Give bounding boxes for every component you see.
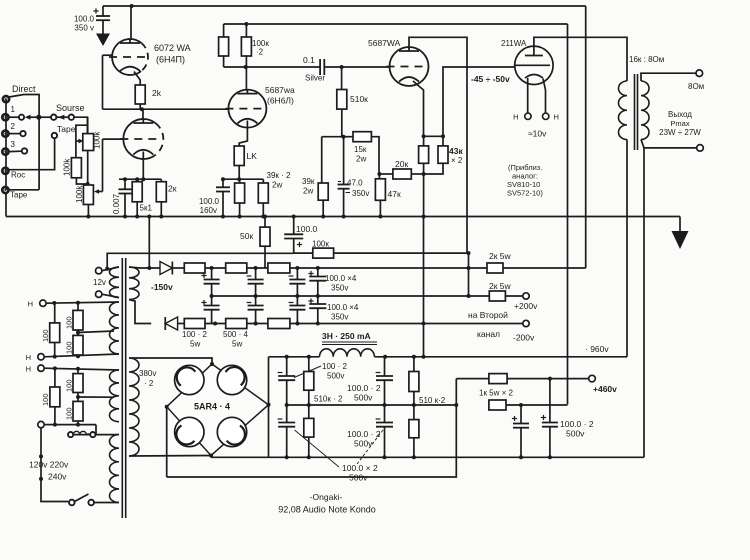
label LK xyxy=(247,151,258,161)
wire V1b plate xyxy=(142,109,144,119)
terminal +460v xyxy=(589,375,596,382)
svg-text:350 v: 350 v xyxy=(74,24,94,33)
wire 43k bottoms xyxy=(422,163,443,176)
resistor 50k xyxy=(260,215,270,269)
wire 12v tap to bias node xyxy=(105,253,294,270)
rectifier tube 5AR4 d xyxy=(217,417,246,446)
svg-text:-200v: -200v xyxy=(513,333,535,343)
label -960v xyxy=(585,344,609,354)
svg-text:350v: 350v xyxy=(331,313,348,322)
tube V2 5687WA xyxy=(225,90,266,128)
svg-text:· 2: · 2 xyxy=(144,379,154,388)
wire rail to row1 xyxy=(147,215,151,271)
wire HT top to bridge xyxy=(129,358,212,364)
resistor 100k plate A xyxy=(219,37,229,56)
resistor 100 g2b xyxy=(50,368,60,424)
wire H1 line xyxy=(46,301,119,305)
label 47k xyxy=(388,189,401,199)
wire T4 line xyxy=(44,423,96,427)
wire jack3 xyxy=(9,150,21,152)
svg-text:Выход: Выход xyxy=(668,110,692,119)
svg-text:0.007: 0.007 xyxy=(112,193,121,214)
svg-text:100 · 2: 100 · 2 xyxy=(182,330,207,339)
wire PSU mid rail xyxy=(285,403,459,407)
label Sourse xyxy=(56,103,85,113)
capacitor psu B mid xyxy=(376,357,393,405)
svg-text:100.0 · 2: 100.0 · 2 xyxy=(560,419,594,429)
choke 3H 250mA xyxy=(320,349,375,357)
label Direct xyxy=(12,84,36,94)
svg-text:5AR4 · 4: 5AR4 · 4 xyxy=(194,402,230,412)
terminal +200v xyxy=(523,293,529,299)
capacitor 100.0 bias xyxy=(284,215,303,254)
svg-text:100: 100 xyxy=(41,329,50,342)
wire pot bottom xyxy=(87,151,89,186)
wire H3 line xyxy=(44,366,119,370)
resistor row1 a xyxy=(184,263,205,273)
junction bridge left xyxy=(165,405,169,409)
junction bridge bottom xyxy=(209,454,213,458)
label 3 xyxy=(11,140,16,149)
svg-text:2w: 2w xyxy=(303,187,313,196)
label 100.0x2 500v bottom xyxy=(295,430,384,483)
label 0.007 xyxy=(112,193,121,214)
label 100k bias xyxy=(312,240,329,249)
label 1k 5w x2 xyxy=(479,389,514,398)
label 100 g1b xyxy=(65,316,74,329)
svg-text:160v: 160v xyxy=(200,206,217,215)
wire OPT sec bottom xyxy=(641,140,697,148)
terminal H left xyxy=(525,113,531,119)
wire mid to 2k5w B xyxy=(467,294,490,298)
wire g2 center tap xyxy=(76,395,114,399)
label H3 xyxy=(26,365,31,374)
svg-text:350v: 350v xyxy=(352,189,369,198)
svg-text:Silver: Silver xyxy=(305,74,325,83)
label Audio Note Kondo xyxy=(278,505,376,515)
contact circle sourse R xyxy=(69,115,74,120)
label 50k xyxy=(240,231,253,241)
svg-text:100.0 · 2: 100.0 · 2 xyxy=(347,429,381,439)
jack Direct xyxy=(3,96,9,102)
svg-text:·2: ·2 xyxy=(256,48,264,57)
terminal -200v xyxy=(523,320,529,326)
svg-text:100.0 · 2: 100.0 · 2 xyxy=(347,383,381,393)
resistor 2k V1a cathode xyxy=(135,85,145,104)
svg-text:20к: 20к xyxy=(395,159,408,169)
label Silver xyxy=(305,74,325,83)
tube 211WA xyxy=(515,46,553,84)
tube V1b 6072 second half xyxy=(120,119,163,159)
wire 510k down xyxy=(341,109,345,139)
resistor rowB c xyxy=(268,319,290,329)
svg-text:LK: LK xyxy=(247,151,258,161)
svg-text:Pmax: Pmax xyxy=(670,119,689,128)
svg-text:100: 100 xyxy=(65,379,74,392)
svg-text:(6Н4П): (6Н4П) xyxy=(156,55,185,65)
wire PSU lower detour xyxy=(167,457,457,477)
wire 15k right xyxy=(371,137,379,174)
svg-text:(6Н6Л): (6Н6Л) xyxy=(267,96,294,106)
wire H2 line xyxy=(44,354,119,359)
wire OPT sec to gnd rail xyxy=(643,148,645,457)
resistor 100 g2c xyxy=(73,393,83,425)
capacitor tier2 c xyxy=(289,296,306,324)
label 211WA xyxy=(501,39,527,48)
terminal 12v bottom xyxy=(96,291,102,297)
svg-text:6072 WA: 6072 WA xyxy=(154,43,191,53)
terminal output bottom xyxy=(697,145,704,152)
wire to sourse contacts xyxy=(41,116,51,118)
label 380v x2 xyxy=(139,369,156,388)
capacitor tier2 b xyxy=(247,296,264,324)
svg-text:-Ongaki-: -Ongaki- xyxy=(310,492,343,502)
wire main ground rail xyxy=(6,216,680,218)
ground arrow right xyxy=(672,217,689,250)
svg-text:100.0 ×4: 100.0 ×4 xyxy=(325,274,357,283)
wire V1a cathode to 2k xyxy=(134,72,140,86)
wire bridge left down xyxy=(166,407,168,477)
diode D1 xyxy=(160,262,172,275)
svg-text:100: 100 xyxy=(65,341,74,354)
rectifier tube 5AR4 c xyxy=(175,417,204,446)
contact circle 3 xyxy=(22,148,27,153)
svg-text:Roc: Roc xyxy=(11,171,25,180)
label 100k pot xyxy=(93,131,102,149)
wire jack1 xyxy=(9,116,19,118)
svg-text:350v: 350v xyxy=(331,284,348,293)
svg-text:5к1: 5к1 xyxy=(140,204,153,213)
label 2 xyxy=(11,122,16,131)
svg-text:100: 100 xyxy=(65,407,74,420)
label 2k 5w A xyxy=(489,251,512,261)
label 100.0x2 500v B xyxy=(347,383,381,403)
label 16k 8ohm xyxy=(629,55,664,64)
svg-text:120v 220v: 120v 220v xyxy=(29,460,69,470)
svg-text:500 · 4: 500 · 4 xyxy=(223,330,248,339)
contact circle sourse L xyxy=(51,115,56,120)
svg-text:Tape: Tape xyxy=(57,124,76,134)
label H1 xyxy=(28,300,33,309)
svg-text:500v: 500v xyxy=(566,429,585,439)
wire V3 plate xyxy=(409,37,467,253)
resistor 1k 5w A xyxy=(456,374,507,384)
svg-text:39к · 2: 39к · 2 xyxy=(267,171,292,180)
resistor rowB a xyxy=(184,319,205,329)
label 510k x2 A xyxy=(314,395,343,404)
wire OPT primary bottom xyxy=(626,140,628,357)
wire V2 cathode xyxy=(239,121,247,147)
resistor 15k 2w xyxy=(343,132,371,142)
svg-text:канал: канал xyxy=(477,329,500,339)
label 2k 5w B xyxy=(489,281,512,291)
wire 100k to node xyxy=(76,178,87,184)
resistor 510k xyxy=(337,67,347,109)
svg-text:100.0: 100.0 xyxy=(199,197,220,206)
wire V3 cathode xyxy=(413,81,424,136)
svg-text:+200v: +200v xyxy=(514,301,538,311)
resistor 20k xyxy=(379,169,423,179)
wire d2 to r1b xyxy=(178,323,185,325)
label na vtoroy xyxy=(468,310,508,320)
wire mid rail to 1k5w xyxy=(455,379,457,458)
svg-text:0.1: 0.1 xyxy=(303,55,315,65)
winding mains primary xyxy=(109,435,119,503)
label 510 k x2 xyxy=(419,396,446,405)
capacitor 0.1 silver xyxy=(320,59,324,75)
wire tape to Roc xyxy=(10,138,55,169)
transformer PT core xyxy=(122,258,125,518)
wire rail2 right drop xyxy=(567,24,569,405)
wire 211 filaments xyxy=(528,78,546,113)
svg-text:8Ом: 8Ом xyxy=(688,82,704,91)
resistor 100k plate B xyxy=(241,37,251,56)
contact arrow 1 xyxy=(25,115,39,120)
terminal 12v top xyxy=(96,268,102,274)
wire jack column xyxy=(5,99,7,190)
transformer OPT secondary xyxy=(641,81,649,140)
label 100x2 500v xyxy=(294,362,347,381)
label 240v xyxy=(48,472,67,482)
svg-text:H: H xyxy=(26,353,31,362)
wire SRPP node xyxy=(103,104,228,109)
wire LK bottom xyxy=(223,166,263,182)
wire mains drop xyxy=(39,428,68,502)
jack Tape xyxy=(2,187,8,193)
diode D2 xyxy=(165,317,177,330)
svg-text:2к 5w: 2к 5w xyxy=(489,281,512,291)
terminal output top xyxy=(696,70,703,77)
wire bias vertical xyxy=(468,253,470,296)
svg-text:2k: 2k xyxy=(152,88,162,98)
wire 1k5wB out xyxy=(506,403,568,407)
resistor 100 g1b xyxy=(73,303,83,330)
svg-text:100 · 2: 100 · 2 xyxy=(322,362,347,371)
label 100 g2b xyxy=(41,393,50,406)
label 3H 250mA xyxy=(322,331,377,345)
junction selector bus xyxy=(36,115,41,120)
junction lk node xyxy=(221,177,225,181)
label 2k xyxy=(152,88,162,98)
svg-text:2к 5w: 2к 5w xyxy=(489,251,512,261)
resistor 43k A xyxy=(419,136,429,163)
wire HT bottom to bridge xyxy=(129,455,211,458)
svg-text:2w: 2w xyxy=(356,155,366,164)
svg-text:3: 3 xyxy=(11,140,16,149)
label 100.0x2 500v E xyxy=(560,419,594,439)
label 100.0 bias xyxy=(296,224,318,234)
label +200v xyxy=(514,301,538,311)
wire 43k node down xyxy=(422,174,426,219)
label 100.0 350v cap xyxy=(74,15,95,33)
rectifier tube 5AR4 b xyxy=(217,365,246,394)
svg-text:· 960v: · 960v xyxy=(585,344,609,354)
label 5AR4 x4 xyxy=(194,402,230,412)
potentiometer 100k xyxy=(83,117,94,150)
label Roc xyxy=(11,171,25,180)
label 39k x2 2w xyxy=(267,171,292,190)
svg-text:510к · 2: 510к · 2 xyxy=(314,395,343,404)
wire rowB right xyxy=(290,322,523,326)
wire B+ rail top xyxy=(103,6,586,16)
wire 211 plate xyxy=(534,37,627,81)
junction grid node xyxy=(86,182,90,186)
capacitor tier2 a xyxy=(201,296,219,324)
resistor row1 c xyxy=(268,263,290,273)
wire V1b cathode xyxy=(142,152,144,180)
resistor 510k2 B xyxy=(304,405,314,457)
wire r3 right xyxy=(290,266,471,270)
transformer bias winding xyxy=(129,267,139,300)
resistor 2k 5w B xyxy=(489,291,505,301)
label 5687WA V2 xyxy=(265,85,295,106)
svg-text:-150v: -150v xyxy=(151,282,173,292)
label 5k1 xyxy=(140,204,153,213)
wire branch to 100k grid R xyxy=(76,125,88,158)
resistor 100 g1c xyxy=(73,330,83,357)
jack input 1 xyxy=(2,114,8,120)
label -150v xyxy=(151,282,173,292)
wire cap to grid xyxy=(324,65,389,69)
wire mid rail xyxy=(210,294,469,298)
wire 43k tops tie xyxy=(422,134,445,138)
svg-text:510 к·2: 510 к·2 xyxy=(419,396,446,405)
resistor 39k A xyxy=(235,179,245,218)
pot wiper arrow xyxy=(76,139,84,144)
wire 1k5wA out xyxy=(507,377,589,381)
svg-text:-45 ÷ -50v: -45 ÷ -50v xyxy=(471,74,510,84)
tube V1a 6072WA xyxy=(109,39,148,75)
wire rb1-rb2 xyxy=(205,322,226,326)
wire d1 to r1 xyxy=(172,267,184,269)
terminal H3 xyxy=(38,365,44,371)
svg-text:100к: 100к xyxy=(312,240,329,249)
wire PSU top rail left xyxy=(269,355,320,359)
capacitor 0.007 xyxy=(119,179,132,218)
capacitor tier1 a xyxy=(201,268,219,296)
svg-text:5687WA: 5687WA xyxy=(368,38,401,48)
winding 12v xyxy=(102,267,119,298)
svg-text:92,08 Audio Note Kondo: 92,08 Audio Note Kondo xyxy=(278,505,376,515)
ground arrow top left xyxy=(96,34,110,47)
wire 211 grid feed xyxy=(443,67,515,136)
bridge diamond xyxy=(167,364,269,456)
wire tape jack to gnd rail xyxy=(6,190,39,217)
wire PSU bottom rail xyxy=(211,455,644,459)
wire bridge right up xyxy=(268,357,270,458)
svg-text:510к: 510к xyxy=(350,94,368,104)
capacitor 100.0x2 F xyxy=(541,379,558,458)
winding HT 380v xyxy=(129,358,139,456)
label 12v xyxy=(93,278,106,287)
wire 100k lower to rail xyxy=(86,205,90,219)
label 100.0 160v xyxy=(199,197,220,215)
junction top rail / V1 plate xyxy=(130,4,134,8)
resistor 43k B xyxy=(438,136,448,163)
label 100.0x4 350v B xyxy=(327,303,359,322)
svg-text:Sourse: Sourse xyxy=(56,103,85,113)
svg-text:100: 100 xyxy=(41,393,50,406)
label 43k x2 xyxy=(449,146,463,165)
wire r1-r2 xyxy=(205,266,226,270)
switch mains xyxy=(69,494,119,505)
svg-text:50к: 50к xyxy=(240,231,253,241)
wire direct bus top xyxy=(9,95,39,190)
wire V2 plate xyxy=(245,67,247,90)
resistor 1k 5w B xyxy=(489,400,506,410)
resistor 5k1 xyxy=(132,182,142,219)
tube V3 5687WA xyxy=(387,47,429,86)
svg-text:100k: 100k xyxy=(75,185,84,203)
wire bias winding top xyxy=(129,267,160,268)
jack input 2 xyxy=(2,131,8,137)
label 510k xyxy=(350,94,368,104)
label 100k lower xyxy=(75,185,84,203)
resistor 100 g2a xyxy=(73,369,83,393)
label 2k cathode xyxy=(168,184,177,194)
junction 20k left xyxy=(377,172,381,176)
svg-text:H: H xyxy=(26,365,31,374)
resistor 100 g1a xyxy=(50,303,60,357)
wire V1a grid xyxy=(103,55,113,109)
svg-text:1: 1 xyxy=(11,105,16,114)
terminal H2 xyxy=(38,354,44,360)
label Tape switch xyxy=(57,124,76,134)
terminal H1 xyxy=(40,300,46,306)
label H2 xyxy=(26,353,31,362)
winding heater B xyxy=(109,370,119,422)
resistor 47k xyxy=(375,174,385,219)
svg-text:47.0: 47.0 xyxy=(347,179,363,188)
label 0.1 xyxy=(303,55,315,65)
resistor row1 b xyxy=(226,263,247,273)
label Ongaki xyxy=(310,492,343,502)
wire 39k3 top xyxy=(322,137,344,183)
label 39k 2w xyxy=(302,177,315,196)
fuse xyxy=(68,425,119,438)
label 8 ohm xyxy=(688,82,704,91)
svg-text:23W ÷ 27W: 23W ÷ 27W xyxy=(659,128,701,137)
svg-text:500v: 500v xyxy=(327,372,344,381)
wire r2-r3 xyxy=(247,266,268,270)
terminal T4 xyxy=(38,421,44,427)
capacitor psu B2 xyxy=(376,405,393,457)
svg-text:5w: 5w xyxy=(190,340,200,349)
svg-text:на Второй: на Второй xyxy=(468,310,508,320)
resistor 39k B xyxy=(258,179,268,218)
svg-text:211WA: 211WA xyxy=(501,39,527,48)
junction bridge right xyxy=(267,403,271,407)
svg-text:380v: 380v xyxy=(139,369,156,378)
svg-text:5687wa: 5687wa xyxy=(265,85,295,95)
capacitor tier1 c xyxy=(289,268,306,296)
svg-text:SV572-10): SV572-10) xyxy=(507,189,543,198)
label kanal xyxy=(477,329,500,339)
label Vyhod xyxy=(659,110,701,137)
junction SRPP node xyxy=(140,107,144,111)
transformer OPT core xyxy=(635,74,638,150)
svg-text:100.0 ×4: 100.0 ×4 xyxy=(327,303,359,312)
label Tape xyxy=(10,191,28,200)
terminal H right xyxy=(543,113,549,119)
label 1 xyxy=(11,105,16,114)
wire 43k node to PSU xyxy=(423,217,425,357)
svg-text:3H · 250 mA: 3H · 250 mA xyxy=(322,331,371,341)
svg-text:100.0 × 2: 100.0 × 2 xyxy=(342,463,378,473)
wire V1b grid xyxy=(94,139,124,194)
capacitor tier1 b xyxy=(247,268,264,296)
wire jack2 xyxy=(9,133,20,135)
